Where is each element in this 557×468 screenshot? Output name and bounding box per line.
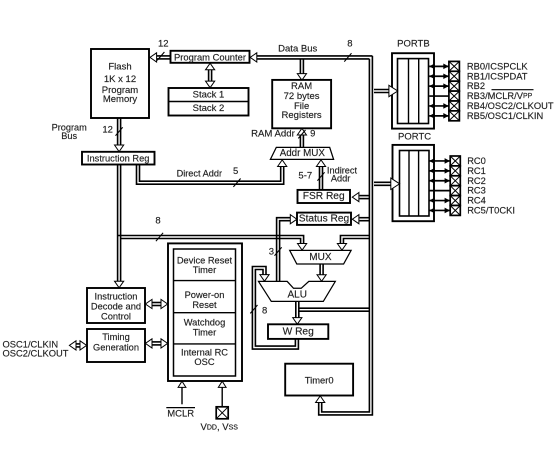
svg-text:Instruction Reg: Instruction Reg [87,153,150,163]
svg-text:RB3/MCLR/VPP: RB3/MCLR/VPP [467,91,533,101]
svg-text:Timing: Timing [102,332,130,342]
svg-text:Data Bus: Data Bus [278,43,317,54]
block: Device Reset / Power-on / Watchdog / Internal RC OSC [168,243,242,381]
svg-text:5-7: 5-7 [298,170,312,181]
block: ALU [259,281,336,301]
wire: Addr MUX to RAM (RAM Addr) [297,128,306,147]
svg-text:Control: Control [101,312,131,322]
svg-text:FSR Reg: FSR Reg [303,191,345,202]
wire: data bus to MUX right input [337,236,369,251]
svg-text:1K x 12: 1K x 12 [104,74,136,85]
wire: Status Reg to ALU (3 status bits) [277,215,297,282]
label: PORTB pin names [467,61,554,121]
wire: PORTB pin line row 5 [429,113,449,119]
svg-text:MUX: MUX [309,252,332,263]
svg-text:RC3: RC3 [467,186,486,196]
svg-text:Device Reset: Device Reset [177,256,233,266]
wire: PORTB pin line row 3 [429,95,449,97]
svg-text:Stack 1: Stack 1 [193,89,225,100]
block: Timing Generation [87,329,145,362]
block: W Reg [268,324,328,339]
wire: PORTC pin line row 4 [429,198,450,204]
label: 12 bus width on Program Bus [102,125,122,136]
svg-text:Addr MUX: Addr MUX [280,148,326,159]
pin: PORTC package pins (crossed boxes) [450,156,460,215]
wire: arrowhead into PORTB [389,85,398,96]
wire: data bus to PORTB [374,90,391,93]
svg-text:5: 5 [233,166,238,177]
wire: 8-bit literal bus to MUX [118,236,307,251]
svg-text:RB0/ICSPCLK: RB0/ICSPCLK [467,61,529,71]
label: VDD VSS [201,422,239,433]
svg-text:Direct Addr: Direct Addr [177,168,222,178]
label: 8 bus width on W loop [250,305,267,316]
label: 5 bus width [233,166,241,187]
svg-text:Memory: Memory [103,94,138,105]
svg-text:W Reg: W Reg [283,326,314,337]
svg-text:RB4/OSC2/CLKOUT: RB4/OSC2/CLKOUT [467,101,554,111]
label: 12 bus width near Flash [157,39,168,61]
block: RAM File Registers [272,80,331,128]
wire: main data bus vertical and Timer0 loop [316,56,373,415]
wire: Instruction Reg to Instruction Decode and Control [115,165,124,288]
wire: PORTC pin line row 2 [429,178,450,184]
block: Addr MUX [270,147,333,159]
svg-text:Reset: Reset [192,300,217,310]
block: Flash Program Memory [91,49,149,118]
wire: PORTB pin line row 4 [429,103,449,109]
wire: OSC pins to Timing Generation (bidirectional) [69,341,86,350]
svg-text:8: 8 [155,215,160,226]
svg-text:Timer0: Timer0 [305,374,334,385]
label: PORTC pin names [467,156,515,216]
block: Instruction Reg [82,152,155,165]
svg-text:Flash: Flash [108,61,131,72]
block: Timer0 [285,364,353,396]
svg-text:RC0: RC0 [467,156,486,166]
svg-text:Program Counter: Program Counter [174,52,246,63]
svg-text:RB2: RB2 [467,81,485,91]
block: Stack 1 / Stack 2 [169,88,249,116]
svg-text:RC1: RC1 [467,166,486,176]
wire: MUX to ALU [317,264,326,281]
label: 5-7 bus width [298,170,324,181]
label: Indirect Addr [327,165,358,183]
block: Program Counter [171,51,250,63]
svg-text:Stack 2: Stack 2 [193,103,225,114]
svg-text:RC2: RC2 [467,176,486,186]
wire: PORTB pin line row 2 [429,83,449,89]
label: 8 bus width on Data Bus [344,39,352,62]
wire: PORTC pin line row 3 [429,190,450,192]
wire: ALU to W Reg [293,302,302,325]
wire: PORTC pin line row 5 [429,208,450,214]
label: 3 bus width [269,246,282,257]
svg-text:Instruction: Instruction [95,291,138,301]
wire: Timing Generation to Device Reset block (bidirectional) [145,339,167,348]
pin: PORTB package pins (crossed boxes) [449,61,460,120]
svg-text:Watchdog: Watchdog [184,318,226,328]
label: RAM Addr [251,129,296,140]
wire: PORTC pin line row 0 [429,158,450,164]
block: MUX [290,250,351,264]
wire: arrowhead into PORTC [391,178,400,189]
wire: data bus to Status Reg (right) [352,215,369,224]
svg-text:8: 8 [347,39,352,50]
svg-text:MCLR: MCLR [167,408,194,419]
svg-text:Decode and: Decode and [91,301,141,311]
block: PORTC [393,132,435,222]
label: Program Bus [52,122,88,141]
svg-text:Internal RC: Internal RC [181,348,228,358]
label: Data Bus [278,43,317,54]
wire: bus Program Counter to Flash (12-bit) [150,53,171,62]
label: 9 bus width [298,129,315,140]
svg-text:Registers: Registers [282,110,322,121]
label: OSC1/CLKIN OSC2/CLKOUT pins [3,339,69,358]
wire: Indirect Addr (FSR Reg to Addr MUX) [316,160,325,190]
wire: W Reg feedback to ALU [252,267,298,350]
svg-text:Status Reg: Status Reg [299,213,350,224]
svg-text:PORTB: PORTB [397,39,430,50]
svg-text:9: 9 [310,129,315,140]
svg-text:Bus: Bus [61,131,77,141]
block: Status Reg [297,213,351,225]
svg-text:RB1/ICSPDAT: RB1/ICSPDAT [467,71,528,81]
svg-text:12: 12 [158,39,169,50]
svg-text:RC5/T0CKI: RC5/T0CKI [467,205,515,215]
wire: Instruction Decode to Device Reset block (bidirectional) [145,299,167,308]
wire: VDD VSS to reset block [218,381,226,407]
wire: PORTB pin line row 1 [429,73,449,79]
svg-text:OSC: OSC [194,357,214,367]
pin: VDD VSS package pin [216,407,228,419]
block: FSR Reg [298,190,351,203]
wire: Data Bus to RAM [297,59,306,80]
wire: PORTC pin line row 1 [429,168,450,174]
svg-text:ALU: ALU [287,289,306,300]
svg-text:Addr: Addr [331,174,350,184]
label: 8 bus width on literal bus [155,215,163,241]
svg-text:12: 12 [102,125,113,136]
wire: data bus to PORTC [374,182,392,185]
svg-text:Power-on: Power-on [185,290,225,300]
wire: PORTB pin line row 0 [429,64,449,70]
svg-text:RAM Addr: RAM Addr [251,129,296,140]
wire: Direct Addr (Instruction Reg to Addr MUX) [137,160,287,184]
svg-text:RB5/OSC1/CLKIN: RB5/OSC1/CLKIN [467,111,543,121]
svg-text:PORTC: PORTC [398,132,431,143]
svg-text:OSC2/CLKOUT: OSC2/CLKOUT [3,349,69,359]
block: Instruction Decode and Control [87,288,145,323]
wire: data bus to FSR Reg [352,193,369,202]
block: PORTB [392,39,434,129]
svg-text:RC4: RC4 [467,196,486,206]
wire: Flash to Instruction Reg (Program Bus) [115,118,124,152]
svg-text:Timer: Timer [193,327,216,337]
svg-text:3: 3 [269,246,274,257]
svg-text:Timer: Timer [193,265,216,275]
label: Direct Addr [177,168,222,178]
wire: ALU output to data bus [299,308,370,311]
wire: MCLR to reset block [178,381,186,404]
wire: Data Bus horizontal segment [250,53,372,62]
label: MCLR pin [166,408,195,420]
svg-text:8: 8 [262,305,267,316]
wire: Program Counter to Stack (bidirectional) [206,63,215,87]
svg-text:Generation: Generation [93,343,139,353]
